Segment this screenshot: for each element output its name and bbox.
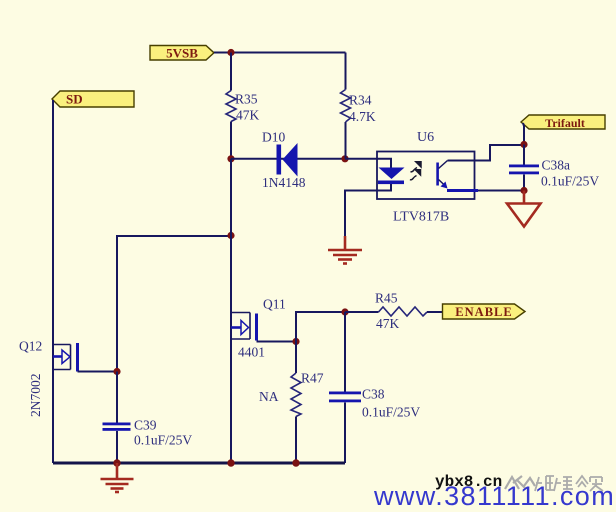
wire R35 bottom lead <box>230 122 232 159</box>
svg-text:U6: U6 <box>417 130 434 145</box>
resistor R35 <box>226 91 236 122</box>
net label ENABLE <box>443 304 526 319</box>
wire U6 collector to Trifault node <box>448 145 525 161</box>
resistor R47 <box>291 373 301 417</box>
svg-text:0.1uF/25V: 0.1uF/25V <box>541 174 599 189</box>
junction dot R35/D10/Q11-gate <box>227 155 234 162</box>
svg-text:4.7K: 4.7K <box>349 109 376 124</box>
svg-text:C38: C38 <box>362 387 385 402</box>
svg-text:47K: 47K <box>236 108 260 123</box>
svg-text:2N7002: 2N7002 <box>28 374 43 418</box>
transistor Q11 <box>231 313 296 342</box>
resistor R45 <box>379 307 428 316</box>
svg-text:D10: D10 <box>262 130 285 145</box>
wire Q11 gate vertical <box>230 159 232 463</box>
wire gate-node horizontal y236 <box>117 236 231 372</box>
svg-text:SD: SD <box>66 92 83 107</box>
wire Trifault to node <box>523 123 524 145</box>
svg-text:C38a: C38a <box>542 158 571 173</box>
ground triangle under C38a <box>507 191 541 227</box>
watermark 维修人家 (drawn strokes) <box>535 476 603 491</box>
junction dot Q11 source/R47 <box>292 338 299 345</box>
wire U6 emitter <box>447 189 478 192</box>
wire R35 top lead <box>230 53 232 91</box>
svg-text:ENABLE: ENABLE <box>455 305 512 319</box>
power flag 5VSB <box>150 46 214 61</box>
wire U6 anode pin <box>345 159 391 168</box>
capacitor C38a <box>509 145 539 191</box>
wire ground bus <box>53 462 345 465</box>
svg-text:5VSB: 5VSB <box>166 46 198 61</box>
wire R34 top lead <box>345 53 347 90</box>
net label SD <box>52 91 134 107</box>
U6 internal LED <box>378 168 405 185</box>
svg-text:Q11: Q11 <box>263 297 286 312</box>
junction dot Q12 source/C39 <box>113 368 120 375</box>
svg-text:4401: 4401 <box>238 345 265 360</box>
junction dot bus/C39 <box>113 459 120 466</box>
svg-text:1N4148: 1N4148 <box>262 175 306 190</box>
capacitor C39 <box>103 372 131 464</box>
wire R34 bottom lead <box>345 122 347 159</box>
capacitor C38 <box>329 312 361 463</box>
wire D10 horizontal <box>231 158 345 160</box>
svg-text:NA: NA <box>259 389 279 404</box>
ground under C39 <box>101 463 134 492</box>
op-amp U6 optocoupler box <box>377 152 475 200</box>
junction dot C38a/emitter <box>520 187 527 194</box>
ground under U6 cathode <box>328 236 362 264</box>
svg-text:R35: R35 <box>235 92 258 107</box>
junction dot gate node <box>227 232 234 239</box>
junction dot 5VSB/R35 <box>227 49 234 56</box>
svg-text:0.1uF/25V: 0.1uF/25V <box>362 405 420 420</box>
wire R45 left lead <box>345 311 379 313</box>
svg-text:Trifault: Trifault <box>545 116 585 130</box>
transistor Q12 <box>53 343 117 372</box>
wire R47 bottom lead <box>295 417 297 464</box>
svg-text:R34: R34 <box>349 93 372 108</box>
svg-text:C39: C39 <box>134 418 157 433</box>
svg-text:Q12: Q12 <box>19 339 42 354</box>
transistor U6 phototransistor <box>436 161 447 189</box>
junction dot bus/Q11 <box>227 459 234 466</box>
junction dot Trifault/C38a/collector <box>520 141 527 148</box>
watermark logo marks <box>505 476 535 489</box>
svg-text:R45: R45 <box>375 291 398 306</box>
light arrow 2 <box>410 170 421 180</box>
wire Q11 source to R45 node <box>296 312 345 342</box>
wire 5VSB to R34 top <box>214 52 346 54</box>
svg-text:LTV817B: LTV817B <box>393 210 449 225</box>
net label Trifault <box>521 115 605 130</box>
wire R47 top lead <box>295 342 297 374</box>
junction dot bus/R47 <box>292 459 299 466</box>
junction dot D10/R34/U6 anode <box>341 155 348 162</box>
svg-text:47K: 47K <box>376 316 400 331</box>
svg-text:R47: R47 <box>301 371 324 386</box>
svg-text:www.3811111.com: www.3811111.com <box>373 481 615 511</box>
resistor R34 <box>341 90 351 123</box>
svg-text:0.1uF/25V: 0.1uF/25V <box>134 433 192 448</box>
wire R45 right lead <box>427 311 443 313</box>
wire SD vertical <box>52 100 54 463</box>
diode D10 <box>277 143 298 177</box>
light arrow 1 <box>411 162 422 172</box>
junction dot R45/C38 node <box>341 308 348 315</box>
wire U6 cathode pin <box>345 184 391 240</box>
